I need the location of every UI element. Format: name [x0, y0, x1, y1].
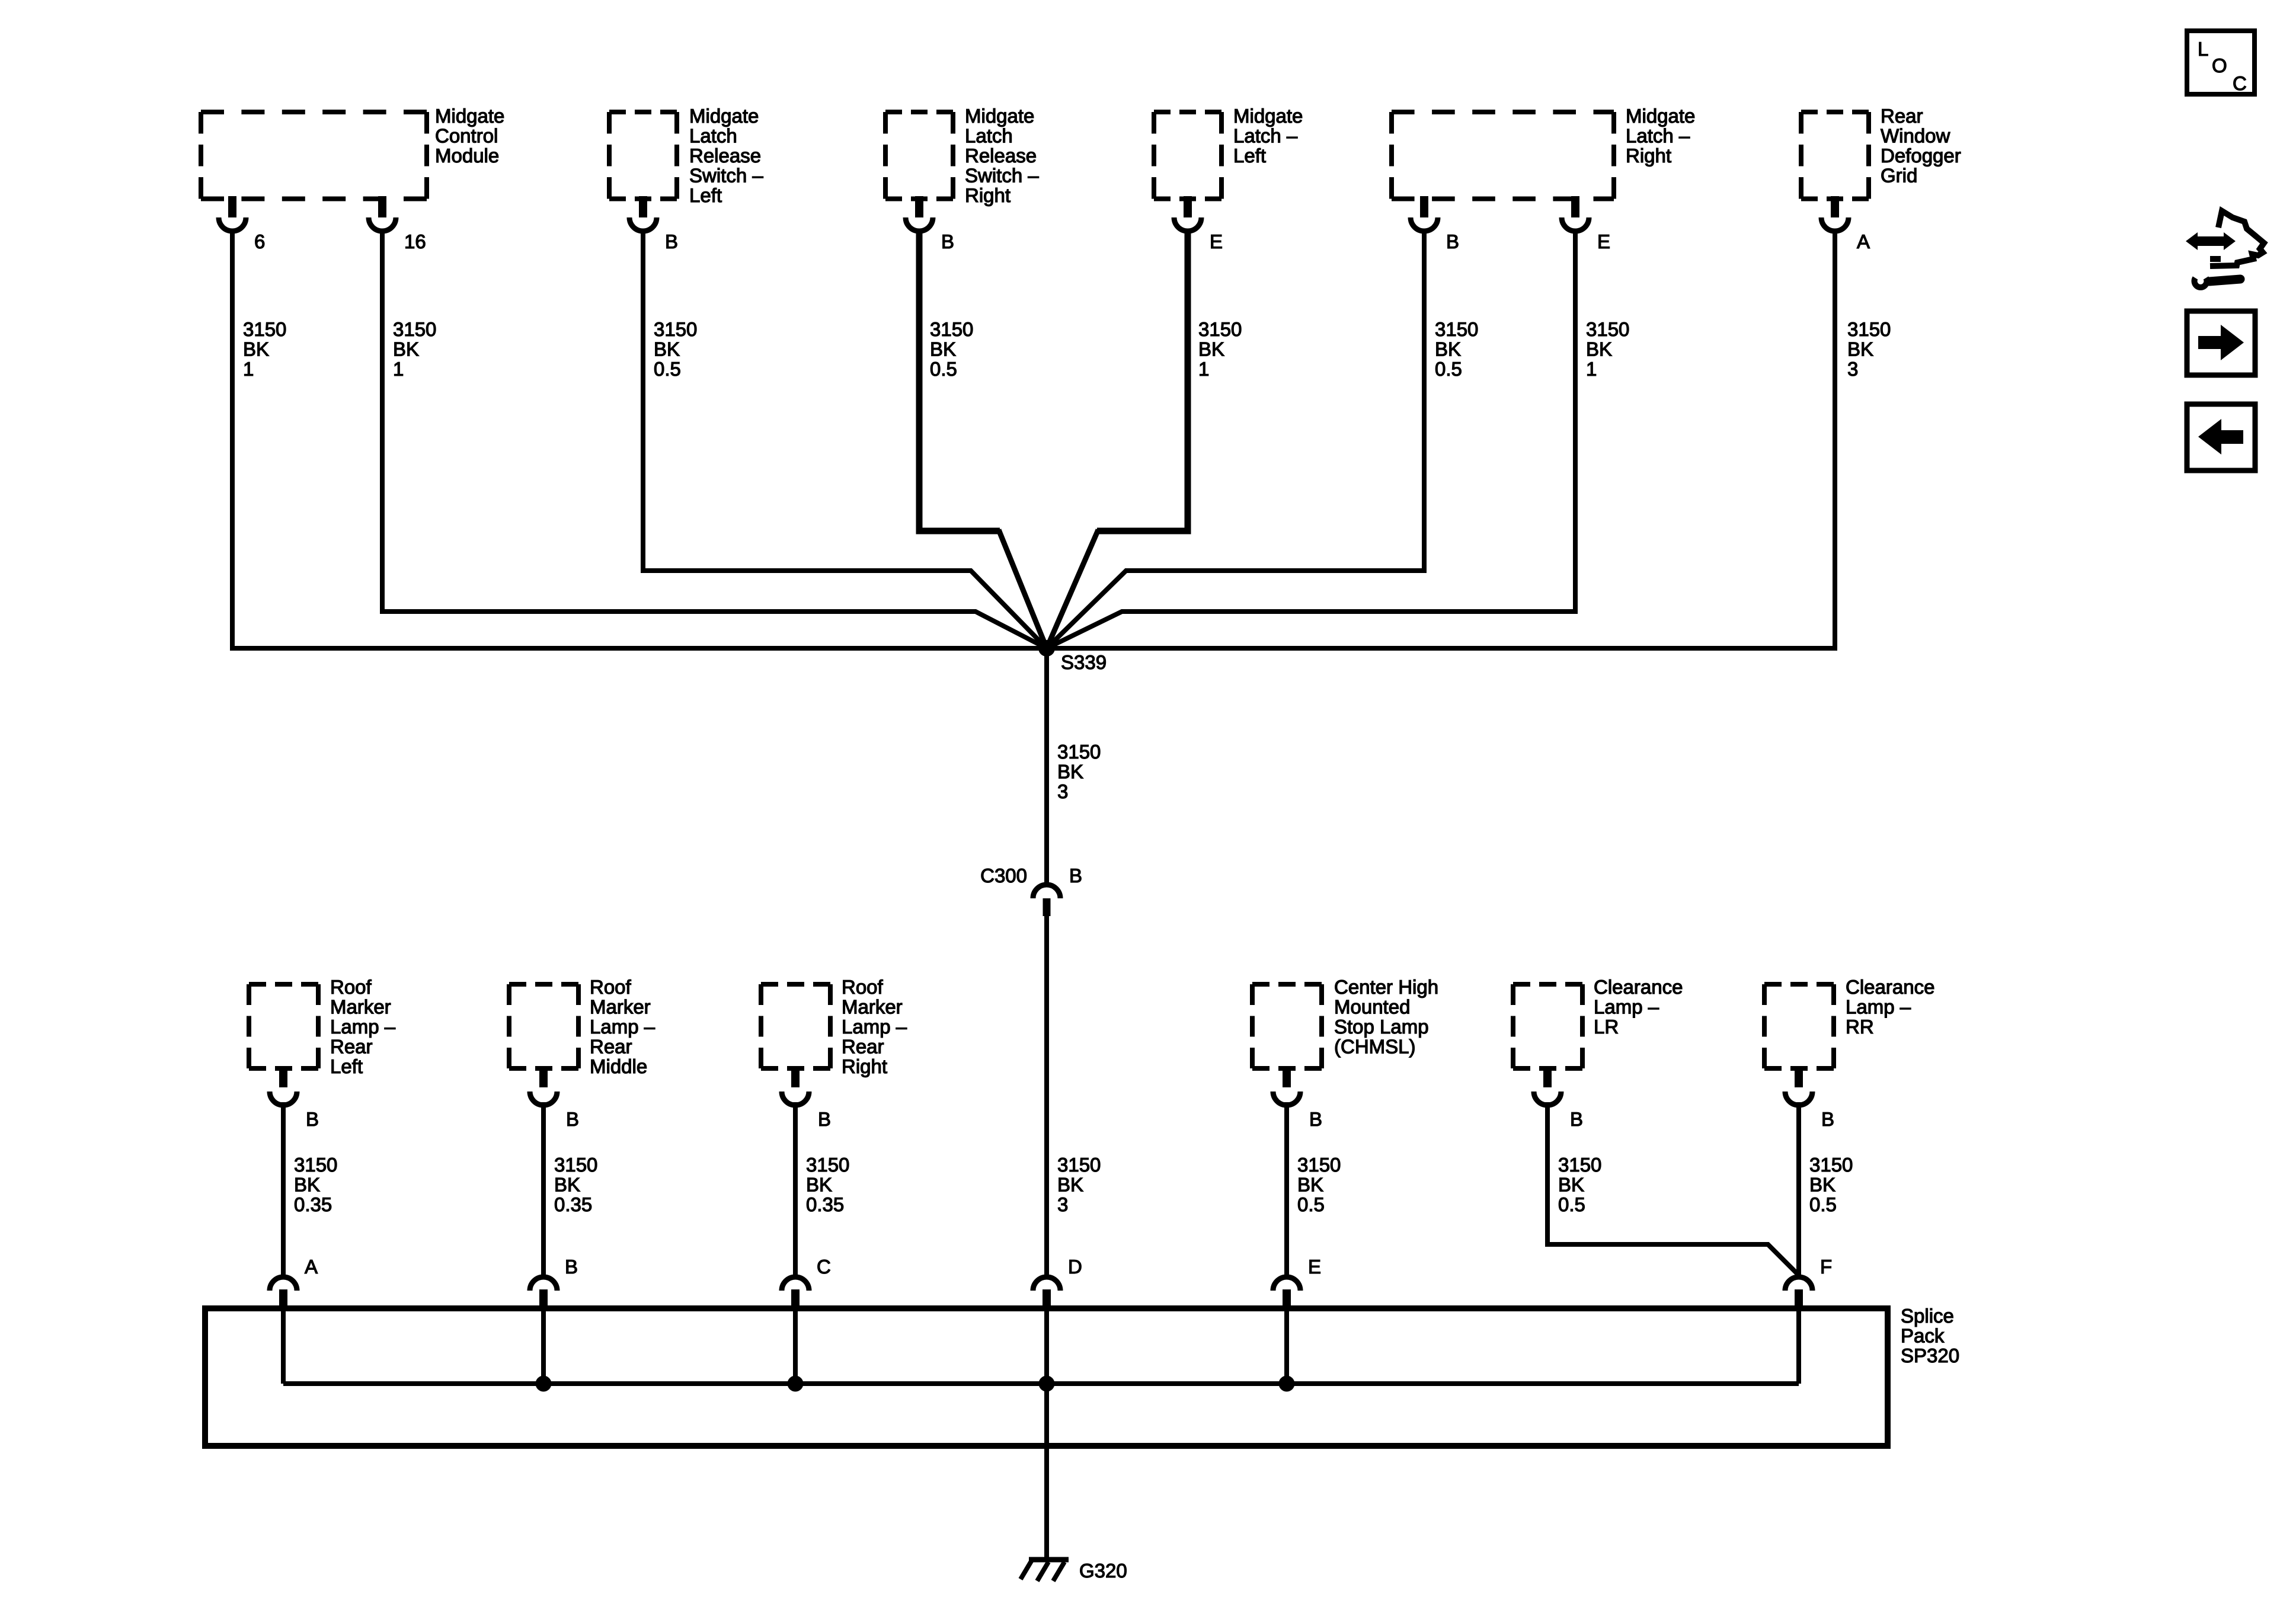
- wire from switch-right pin B to splice S339: [919, 230, 1047, 648]
- svg-text:3150: 3150: [1198, 318, 1242, 340]
- svg-text:B: B: [1821, 1108, 1834, 1130]
- connector box E4: Center High Mounted Stop Lamp CHMSL (dashed): [1252, 984, 1322, 1068]
- wire 3150 BK 3 label (defogger): [1847, 318, 1891, 380]
- svg-text:3: 3: [1057, 1193, 1068, 1215]
- internal wire pin E to bus: [1284, 1311, 1289, 1384]
- svg-text:Roof: Roof: [842, 976, 884, 998]
- internal wire pin F to bus: [1796, 1311, 1801, 1384]
- wire 3150 BK 0.5 label (clearance RR): [1809, 1154, 1853, 1215]
- label: Midgate Latch - Right: [1626, 105, 1695, 167]
- svg-text:Clearance: Clearance: [1594, 976, 1683, 998]
- svg-text:0.35: 0.35: [554, 1193, 592, 1215]
- wire 3150 BK 0.5 label (CHMSL): [1297, 1154, 1341, 1215]
- svg-text:C: C: [2233, 72, 2247, 94]
- connector C300 pin B: [980, 865, 1082, 916]
- label: Clearance Lamp - LR: [1594, 976, 1683, 1038]
- svg-text:3150: 3150: [1809, 1154, 1853, 1176]
- wire roof middle lamp to splice pack pin B: [541, 1102, 546, 1275]
- connector box L5: Midgate Latch - Right (dashed): [1392, 112, 1614, 199]
- svg-text:BK: BK: [806, 1174, 832, 1196]
- svg-text:3150: 3150: [1057, 1154, 1101, 1176]
- svg-text:Marker: Marker: [842, 996, 903, 1018]
- svg-text:Lamp –: Lamp –: [590, 1016, 655, 1038]
- svg-text:B: B: [1069, 865, 1082, 886]
- junction dot at pin E on bus: [1279, 1376, 1295, 1392]
- svg-text:BK: BK: [1057, 1174, 1083, 1196]
- svg-text:3150: 3150: [806, 1154, 849, 1176]
- svg-text:Lamp –: Lamp –: [1594, 996, 1659, 1018]
- label: Roof Marker Lamp - Rear Middle: [590, 976, 655, 1077]
- LOC legend box: [2187, 31, 2255, 94]
- pin B of Midgate Latch - Right: [1411, 196, 1459, 252]
- wire roof right lamp to splice pack pin C: [793, 1102, 798, 1275]
- svg-text:Roof: Roof: [590, 976, 632, 998]
- svg-text:Latch –: Latch –: [1233, 125, 1298, 147]
- label: Center High Mounted Stop Lamp (CHMSL): [1334, 976, 1438, 1058]
- splice pack pin C: [782, 1256, 831, 1311]
- wire from splice S339 right and up to defogger pin A: [1047, 230, 1835, 648]
- svg-text:BK: BK: [1057, 761, 1083, 783]
- wire 3150 BK 0.5 label (clearance LR): [1558, 1154, 1601, 1215]
- svg-text:Midgate: Midgate: [1233, 105, 1303, 127]
- svg-text:B: B: [818, 1108, 831, 1130]
- label: Roof Marker Lamp - Rear Left: [330, 976, 396, 1077]
- svg-text:Pack: Pack: [1901, 1325, 1945, 1347]
- svg-text:BK: BK: [1297, 1174, 1323, 1196]
- svg-text:3: 3: [1847, 358, 1858, 380]
- svg-text:BK: BK: [930, 338, 956, 360]
- svg-text:B: B: [665, 231, 678, 252]
- wire 3150 BK 0.35 label (roof left): [294, 1154, 337, 1215]
- junction dot at pin B on bus: [536, 1376, 552, 1392]
- svg-text:Switch –: Switch –: [965, 165, 1039, 187]
- svg-text:0.5: 0.5: [1558, 1193, 1585, 1215]
- svg-text:O: O: [2212, 55, 2227, 76]
- wire CHMSL to splice pack pin E: [1284, 1102, 1289, 1275]
- wire 3150 BK 0.5 label (switch left): [654, 318, 697, 380]
- svg-text:3150: 3150: [554, 1154, 597, 1176]
- svg-text:S339: S339: [1061, 651, 1107, 673]
- svg-text:Right: Right: [842, 1055, 887, 1077]
- svg-text:BK: BK: [554, 1174, 580, 1196]
- connector box E2: Roof Marker Lamp - Rear Middle (dashed): [509, 984, 578, 1068]
- svg-text:0.5: 0.5: [1809, 1193, 1837, 1215]
- svg-text:B: B: [1309, 1108, 1322, 1130]
- connector box L4: Midgate Latch - Left (dashed): [1154, 112, 1221, 199]
- svg-text:B: B: [566, 1108, 579, 1130]
- wire 3150 BK 1 label (pin 6): [243, 318, 286, 380]
- svg-text:Center High: Center High: [1334, 976, 1438, 998]
- svg-text:1: 1: [393, 358, 404, 380]
- wire from latch-right pin E to splice S339: [1047, 230, 1575, 648]
- pin B of Clearance Lamp - RR: [1785, 1066, 1834, 1130]
- svg-text:Lamp –: Lamp –: [842, 1016, 907, 1038]
- connector box E5: Clearance Lamp - LR (dashed): [1513, 984, 1582, 1068]
- svg-text:Module: Module: [435, 145, 499, 167]
- svg-text:3150: 3150: [930, 318, 973, 340]
- wrench icon: [2195, 278, 2241, 287]
- wire 3150 BK 3 from splice S339 down to connector C300: [1047, 648, 1101, 882]
- svg-text:F: F: [1820, 1256, 1832, 1278]
- wire 3150 BK 0.35 label (roof right): [806, 1154, 849, 1215]
- svg-text:SP320: SP320: [1901, 1345, 1959, 1366]
- pin B of Midgate Latch Release Switch - Left: [629, 196, 678, 252]
- svg-text:Right: Right: [965, 184, 1011, 206]
- connector box E1: Roof Marker Lamp - Rear Left (dashed): [249, 984, 318, 1068]
- label: Midgate Latch Release Switch - Left: [689, 105, 763, 206]
- splice S339: [1038, 640, 1107, 673]
- label: Rear Window Defogger Grid: [1881, 105, 1961, 187]
- svg-text:0.35: 0.35: [294, 1193, 332, 1215]
- svg-text:BK: BK: [243, 338, 269, 360]
- svg-text:3150: 3150: [1558, 1154, 1601, 1176]
- svg-text:3150: 3150: [1435, 318, 1478, 340]
- ground G320: [1021, 1560, 1127, 1582]
- svg-text:Rear: Rear: [842, 1036, 884, 1058]
- svg-text:Marker: Marker: [590, 996, 651, 1018]
- pin B of CHMSL: [1273, 1066, 1322, 1130]
- svg-text:Latch: Latch: [689, 125, 737, 147]
- svg-text:Lamp –: Lamp –: [1846, 996, 1911, 1018]
- label: Roof Marker Lamp - Rear Right: [842, 976, 907, 1077]
- svg-text:L: L: [2198, 38, 2208, 60]
- svg-text:1: 1: [1198, 358, 1209, 380]
- svg-text:BK: BK: [1558, 1174, 1584, 1196]
- svg-text:BK: BK: [393, 338, 419, 360]
- svg-text:Midgate: Midgate: [689, 105, 759, 127]
- svg-text:Middle: Middle: [590, 1055, 647, 1077]
- svg-text:0.5: 0.5: [1297, 1193, 1325, 1215]
- splice pack pin D: [1033, 1256, 1082, 1311]
- svg-text:Clearance: Clearance: [1846, 976, 1934, 998]
- pin 16 of Midgate Control Module: [369, 196, 426, 252]
- svg-text:E: E: [1308, 1256, 1321, 1278]
- svg-text:1: 1: [1586, 358, 1597, 380]
- connector box S2: Midgate Latch Release Switch - Left (dashed): [609, 112, 677, 199]
- svg-text:Left: Left: [689, 184, 722, 206]
- label: Clearance Lamp - RR: [1846, 976, 1934, 1038]
- wire from pin 16 to splice S339: [382, 230, 1047, 648]
- svg-text:BK: BK: [1809, 1174, 1835, 1196]
- svg-text:Release: Release: [689, 145, 761, 167]
- svg-text:0.5: 0.5: [930, 358, 957, 380]
- wire 3150 BK 0.5 label (latch right B): [1435, 318, 1478, 380]
- pin 6 of Midgate Control Module: [219, 196, 265, 252]
- svg-text:Lamp –: Lamp –: [330, 1016, 396, 1038]
- wire 3150 BK 1 label (pin 16): [393, 318, 436, 380]
- forward arrow box: [2187, 311, 2255, 375]
- splice pack pin E: [1273, 1256, 1321, 1311]
- svg-text:3150: 3150: [1297, 1154, 1341, 1176]
- svg-text:B: B: [565, 1256, 578, 1278]
- svg-text:B: B: [1570, 1108, 1583, 1130]
- wire pin D through SP320 down to ground: [1044, 1311, 1049, 1557]
- svg-text:B: B: [941, 231, 954, 252]
- svg-text:Release: Release: [965, 145, 1037, 167]
- svg-text:Stop Lamp: Stop Lamp: [1334, 1016, 1429, 1038]
- svg-text:Rear: Rear: [1881, 105, 1923, 127]
- internal wire pin A to bus: [281, 1311, 286, 1384]
- pin B of Clearance Lamp - LR: [1534, 1066, 1583, 1130]
- label: Midgate Control Module: [435, 105, 504, 167]
- wire clearance RR to splice pack pin F: [1796, 1102, 1801, 1275]
- splice pack pin A: [270, 1256, 318, 1311]
- svg-text:6: 6: [254, 231, 265, 252]
- svg-text:0.5: 0.5: [1435, 358, 1462, 380]
- svg-text:BK: BK: [294, 1174, 320, 1196]
- svg-text:Latch –: Latch –: [1626, 125, 1690, 147]
- connector box E6: Clearance Lamp - RR (dashed): [1764, 984, 1834, 1068]
- svg-text:0.5: 0.5: [654, 358, 681, 380]
- splice pack SP320 housing: [205, 1305, 1959, 1446]
- svg-text:1: 1: [243, 358, 254, 380]
- svg-text:C300: C300: [980, 865, 1027, 886]
- svg-text:Left: Left: [330, 1055, 363, 1077]
- svg-text:Midgate: Midgate: [1626, 105, 1695, 127]
- pin B of Midgate Latch Release Switch - Right: [906, 196, 954, 252]
- pin B of Roof Marker Lamp - Rear Right: [782, 1066, 831, 1130]
- splice pack pin B: [530, 1256, 578, 1311]
- svg-text:3150: 3150: [1057, 741, 1101, 763]
- svg-text:Midgate: Midgate: [435, 105, 504, 127]
- svg-text:A: A: [305, 1256, 318, 1278]
- svg-text:3150: 3150: [243, 318, 286, 340]
- connector box U1: Midgate Control Module (dashed): [201, 112, 427, 199]
- svg-text:Right: Right: [1626, 145, 1671, 167]
- wire 3150 BK 3 from C300 down to splice pack pin D: [1047, 916, 1101, 1275]
- svg-text:BK: BK: [1198, 338, 1224, 360]
- connector box G6: Rear Window Defogger Grid (dashed): [1801, 112, 1869, 199]
- svg-text:C: C: [817, 1256, 831, 1278]
- wire 3150 BK 1 label (latch right E): [1586, 318, 1629, 380]
- svg-text:B: B: [306, 1108, 319, 1130]
- svg-text:Rear: Rear: [590, 1036, 632, 1058]
- svg-text:Roof: Roof: [330, 976, 372, 998]
- wire roof left lamp to splice pack pin A: [281, 1102, 286, 1275]
- pin B of Roof Marker Lamp - Rear Left: [270, 1066, 319, 1130]
- svg-text:Control: Control: [435, 125, 498, 147]
- svg-text:Mounted: Mounted: [1334, 996, 1410, 1018]
- svg-text:RR: RR: [1846, 1016, 1874, 1038]
- label: Midgate Latch - Left: [1233, 105, 1303, 167]
- svg-text:Rear: Rear: [330, 1036, 373, 1058]
- junction dot at pin D on bus: [1039, 1376, 1055, 1392]
- svg-text:Marker: Marker: [330, 996, 391, 1018]
- svg-text:Latch: Latch: [965, 125, 1013, 147]
- pin A of Rear Window Defogger Grid: [1821, 196, 1870, 252]
- internal bus wire of SP320: [283, 1381, 1799, 1386]
- svg-text:B: B: [1446, 231, 1459, 252]
- svg-text:3150: 3150: [294, 1154, 337, 1176]
- svg-text:Splice: Splice: [1901, 1305, 1954, 1327]
- wire 3150 BK 0.5 label (switch right): [930, 318, 973, 380]
- svg-text:E: E: [1597, 231, 1610, 252]
- vehicle rear icon with double arrow: [2186, 211, 2264, 266]
- splice pack pin F: [1785, 1256, 1832, 1311]
- svg-text:Defogger: Defogger: [1881, 145, 1961, 167]
- connector box E3: Roof Marker Lamp - Rear Right (dashed): [761, 984, 830, 1068]
- backward arrow box: [2187, 404, 2255, 470]
- wire from pin 6 down and right to splice S339: [232, 230, 1047, 648]
- svg-text:BK: BK: [1435, 338, 1461, 360]
- svg-text:BK: BK: [654, 338, 680, 360]
- svg-text:3: 3: [1057, 780, 1068, 802]
- internal wire pin C to bus: [793, 1311, 798, 1384]
- svg-text:(CHMSL): (CHMSL): [1334, 1036, 1416, 1058]
- svg-text:G320: G320: [1079, 1560, 1127, 1582]
- svg-text:D: D: [1068, 1256, 1082, 1278]
- pin B of Roof Marker Lamp - Rear Middle: [530, 1066, 579, 1130]
- wire from latch-left pin E to splice S339: [1047, 230, 1188, 648]
- svg-text:3150: 3150: [1847, 318, 1891, 340]
- svg-text:BK: BK: [1586, 338, 1612, 360]
- svg-text:3150: 3150: [393, 318, 436, 340]
- svg-text:0.35: 0.35: [806, 1193, 844, 1215]
- connector box S3: Midgate Latch Release Switch - Right (dashed): [885, 112, 953, 199]
- svg-text:BK: BK: [1847, 338, 1873, 360]
- wire from latch-right pin B to splice S339: [1047, 230, 1424, 648]
- pin E of Midgate Latch - Left: [1174, 196, 1223, 252]
- wire 3150 BK 0.35 label (roof middle): [554, 1154, 597, 1215]
- wire 3150 BK 1 label (latch left): [1198, 318, 1242, 380]
- pin E of Midgate Latch - Right: [1562, 196, 1610, 252]
- wire from switch-left pin B to splice S339: [643, 230, 1047, 648]
- svg-text:16: 16: [404, 231, 426, 252]
- junction dot at pin C on bus: [788, 1376, 804, 1392]
- svg-text:3150: 3150: [1586, 318, 1629, 340]
- wire clearance LR to splice pack pin F: [1547, 1102, 1799, 1275]
- svg-text:Switch –: Switch –: [689, 165, 763, 187]
- svg-text:Midgate: Midgate: [965, 105, 1034, 127]
- svg-text:Grid: Grid: [1881, 165, 1917, 187]
- svg-text:LR: LR: [1594, 1016, 1619, 1038]
- svg-text:A: A: [1857, 231, 1870, 252]
- svg-text:3150: 3150: [654, 318, 697, 340]
- svg-text:Window: Window: [1881, 125, 1950, 147]
- svg-text:E: E: [1210, 231, 1223, 252]
- internal wire pin B to bus: [541, 1311, 546, 1384]
- label: Midgate Latch Release Switch - Right: [965, 105, 1039, 206]
- svg-text:Left: Left: [1233, 145, 1266, 167]
